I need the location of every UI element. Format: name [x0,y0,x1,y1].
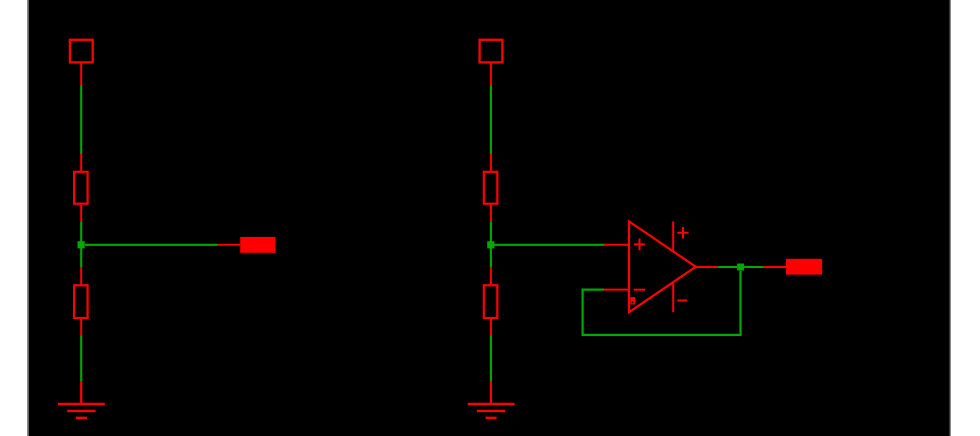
port P2 (input pad square) [480,40,503,86]
wire [80,85,82,154]
port P1 (input pad square) [70,40,93,86]
op-amp U1 pin + (non-inverting input) [604,244,629,246]
wire node A to output tag [85,244,218,246]
ground [58,382,105,418]
wire [80,335,82,381]
junction node C [737,264,744,271]
op-amp U1 pin number glyph [630,297,636,304]
wire output pin to node C [718,266,737,268]
wire [80,248,82,267]
resistor R4 [484,267,498,335]
op-amp U1 pin - (inverting input) [604,289,629,291]
wire [490,335,492,381]
op-amp U1 [604,221,718,312]
wire [490,248,492,267]
feedback wire from node C to inverting input [583,271,741,335]
op-amp U1 plus mark at V+ [677,232,688,234]
op-amp U1 pin V- [672,283,674,312]
ground [468,382,515,418]
op-amp U1 output pin [696,266,718,268]
op-amp U1 pin V+ [672,221,674,252]
wire [490,222,492,242]
output tag (filled label) [218,237,276,253]
wire [80,222,82,242]
output tag (filled label) [764,259,822,275]
wire node B to op-amp non-inverting input [495,244,605,246]
resistor R3 [484,154,498,222]
junction node B [487,241,494,248]
op-amp U1 plus mark at input [634,243,645,245]
wire [744,266,764,268]
op-amp U1 minus mark at V- [677,300,687,302]
junction node A [78,241,85,248]
op-amp U1 minus mark at input [634,289,645,291]
wire [490,85,492,154]
resistor R2 [74,267,88,335]
op-amp U1 body triangle [629,221,696,312]
resistor R1 [74,154,88,222]
